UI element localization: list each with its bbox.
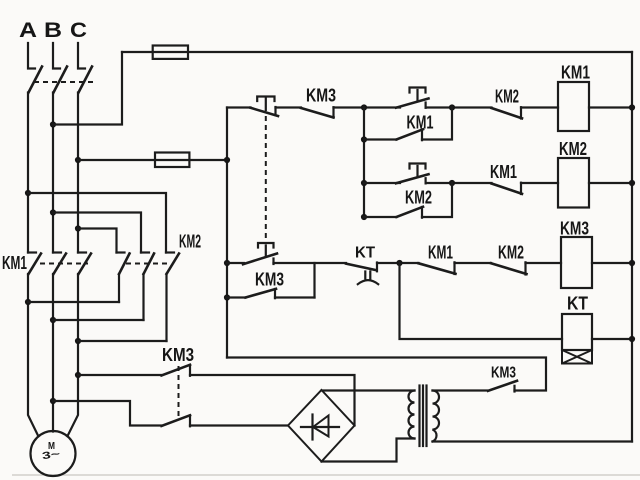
contactor KM2 main pole 2 [141, 251, 149, 253]
relay KT delay symbol [358, 272, 378, 285]
svg-text:KM1: KM1 [428, 243, 453, 263]
wire phase A tap to KM2 pole 3 [28, 193, 166, 253]
pushbutton SB2 start forward blade [396, 99, 429, 108]
junction rung 1 branch left [361, 104, 367, 110]
junction phase A tap to KM2 [25, 190, 31, 196]
rectifier diode cathode bar [311, 415, 313, 440]
junction phase C tap to KM2 [75, 225, 81, 231]
wire coil KM1 to right bus [589, 106, 632, 108]
contactor KM3 brake pole 1 tick [189, 365, 191, 376]
junction rung 3 start [224, 260, 230, 266]
wire branch bus rung 1-2 [363, 108, 365, 218]
svg-text:KM3: KM3 [162, 345, 194, 365]
contactor KM2 interlock NC blade rung 1 [492, 108, 523, 118]
junction brake feed V [50, 398, 56, 404]
svg-text:KT: KT [355, 245, 376, 262]
svg-text:B: B [44, 19, 62, 42]
wire KM3 aux branch right [275, 296, 315, 298]
wire rung 1 from bus to stop button [227, 106, 251, 108]
relay KT timed contact tick [376, 263, 378, 272]
wire tie V between KM1 and KM2 [53, 319, 144, 321]
switch QS linkage dashed [34, 81, 94, 83]
wire phase C vertical [77, 93, 79, 253]
contactor KM3 brake pole 2 blade [162, 415, 191, 426]
junction right bus KT [629, 336, 635, 342]
wire rung 2 button to KM1 NC [426, 182, 492, 184]
junction rung 2 branch right [449, 180, 455, 186]
wire secondary to control return [227, 358, 546, 391]
wire phase A lead-in [28, 43, 35, 69]
wire brake lower from V [53, 401, 161, 426]
transformer T core [418, 386, 420, 447]
svg-text:KM2: KM2 [405, 188, 432, 208]
junction control bus fuse FU2 [224, 157, 230, 163]
contactor KM1 NC tick rung 3 [453, 262, 455, 274]
wire KM1 aux branch left [364, 138, 397, 140]
transformer T primary top lead [322, 389, 415, 391]
relay KT timed contact blade [346, 264, 377, 271]
rectifier diode triangle [313, 416, 329, 437]
junction KT coil branch [396, 260, 402, 266]
wire KM2 pole 3 output [165, 274, 167, 341]
coil KM2 [558, 158, 589, 208]
contactor KM2 aux NO blade [397, 207, 424, 217]
wire brake upper to KM3 contact [78, 374, 161, 376]
wire phase C tap to KM2 pole 1 [78, 229, 117, 253]
wire control line 1 top [122, 51, 632, 53]
contactor KM1 aux NO tick [421, 130, 423, 141]
junction phase B to fuse FU1 [50, 121, 56, 127]
contactor KM1 main pole 2 [53, 251, 61, 253]
contactor KM2 main pole 1 [117, 251, 125, 253]
wire control bus left [226, 108, 228, 358]
wire KM1 aux branch right riser [422, 108, 452, 140]
svg-text:A: A [19, 19, 37, 42]
contactor KM1 interlock NC tick rung 2 [520, 183, 522, 194]
junction KM1 aux branch left [361, 136, 367, 142]
contactor KM2 aux NO tick [421, 207, 423, 218]
svg-text:KM1: KM1 [2, 253, 27, 273]
wire KT coil branch riser [400, 263, 563, 339]
wire phase C lead-in [78, 43, 85, 69]
contactor KM1 main pole 3 [78, 251, 86, 253]
pushbutton SB3 start reverse actuator [410, 164, 426, 177]
wire rung 2 to coil KM2 [521, 182, 558, 184]
wire phase B tap to KM2 pole 2 [53, 213, 141, 253]
svg-text:KT: KT [567, 294, 588, 314]
wire coil KM2 to right bus [589, 182, 632, 184]
wire rung 1 to coil KM1 [521, 106, 558, 108]
junction rung 1 branch right [449, 104, 455, 110]
contactor KM3 aux NO blade rung 3 [246, 289, 277, 298]
contactor KM3 aux contact secondary tick [513, 386, 515, 392]
junction rung 2 start [361, 180, 367, 186]
wire coil KM3 to right bus [592, 262, 632, 264]
junction brake feed W [75, 372, 81, 378]
wire rung 3 KT to KM1 NC [377, 262, 419, 264]
coil KM3 [561, 237, 592, 288]
pushbutton SB1 stop contact 1 blade [251, 108, 279, 116]
junction right bus rung 3 [629, 260, 635, 266]
svg-text:KM3: KM3 [255, 270, 284, 290]
contactor KM3 brake linkage dashed [178, 366, 180, 418]
wire phase A vertical [27, 93, 29, 253]
pushbutton SB1 linkage dashed [265, 116, 267, 241]
wire rung 3 KM1 to KM2 NC [455, 262, 492, 264]
contactor KM1 aux NO blade [397, 129, 424, 139]
contactor KM2 linkage dashed [126, 263, 167, 265]
wire phase B lead-in [53, 43, 60, 69]
switch QS pole C blade [79, 67, 93, 93]
pushbutton SB1 stop contact 2 blade [243, 254, 277, 265]
wire coil KT to right bus [592, 338, 632, 340]
junction tie V [50, 317, 56, 323]
svg-text:KM2: KM2 [179, 232, 201, 252]
pushbutton SB2 start forward actuator [410, 88, 426, 101]
junction tie U [25, 299, 31, 305]
contactor KM1 NC blade rung 3 [419, 263, 456, 274]
contactor KM3 aux NO blade rung 1 [301, 108, 334, 118]
junction phase C to fuse FU2 [75, 157, 81, 163]
wire KM2 aux branch left [364, 216, 397, 218]
contactor KM3 aux NO tick rung 1 [332, 107, 334, 117]
pushbutton SB3 start reverse blade [396, 174, 429, 183]
svg-text:KM1: KM1 [490, 162, 517, 182]
wire KM3 aux branch riser [313, 263, 315, 298]
switch QS pole A blade [29, 67, 43, 93]
junction right bus rung 2 [629, 180, 635, 186]
wire KM2 aux branch right riser [422, 183, 452, 217]
transformer T secondary top lead [433, 389, 488, 391]
transformer T secondary bottom lead [433, 440, 633, 442]
fuse FU2 [155, 153, 189, 168]
transformer T primary bottom lead [322, 439, 415, 462]
contactor KM1 interlock NC blade rung 2 [492, 184, 523, 194]
scan edge artifact bottom [12, 474, 640, 476]
wire rung 3 from bus to stop contact 2 [227, 262, 244, 264]
relay KT delay element box [562, 350, 592, 364]
svg-text:KM2: KM2 [559, 139, 587, 159]
wire KM2 pole 2 output [142, 274, 144, 320]
contactor KM2 NC blade rung 3 [491, 263, 527, 274]
coil KT [562, 314, 592, 350]
wire motor lead U vertical [28, 274, 38, 436]
svg-text:C: C [70, 19, 87, 42]
wire brake lower to rectifier minus [190, 424, 288, 426]
wire KM2 pole 1 output [118, 274, 120, 302]
wire KM3 aux branch left [227, 296, 246, 298]
contactor KM3 brake pole 2 tick [189, 416, 191, 427]
wire to fuse FU1 riser [53, 52, 122, 125]
wire rung 3 stop to KT contact [274, 262, 347, 264]
pushbutton SB2 start forward ticks [425, 103, 427, 108]
junction KM2 aux branch left [361, 214, 367, 220]
junction phase B tap to KM2 [50, 209, 56, 215]
svg-text:KM2: KM2 [495, 87, 519, 107]
pushbutton SB1 stop contact 1 actuator [257, 97, 274, 111]
wire tie U between KM1 and KM2 [28, 301, 119, 303]
contactor KM3 aux contact secondary blade [488, 381, 517, 391]
rectifier bridge VC body [288, 390, 355, 462]
wire rung 2 to start button [364, 182, 400, 184]
motor M 3~ [31, 431, 76, 476]
wire motor lead V vertical [52, 274, 54, 432]
fuse FU1 [153, 46, 188, 59]
svg-text:KM3: KM3 [306, 86, 336, 106]
switch QS pole B blade [54, 67, 68, 93]
coil KM1 [558, 82, 589, 131]
wire brake upper to rectifier plus [190, 375, 355, 426]
wire rung 1 button to KM2 NC [426, 106, 492, 108]
junction KM3 aux branch bus [224, 294, 230, 300]
wire rung 1 KM3 to start button [334, 106, 401, 108]
junction tie W [75, 338, 81, 344]
svg-text:KM3: KM3 [491, 365, 516, 382]
wire phase B vertical [52, 93, 54, 253]
pushbutton SB3 start reverse ticks [425, 178, 427, 183]
junction right bus rung 1 [629, 104, 635, 110]
contactor KM1 main pole 1 [28, 251, 36, 253]
transformer T primary winding [409, 391, 415, 439]
contactor KM2 interlock NC tick rung 1 [520, 107, 522, 118]
transformer T secondary winding [433, 391, 440, 442]
contactor KM3 aux NO tick rung 3 [274, 289, 276, 298]
svg-text:KM2: KM2 [498, 243, 524, 263]
contactor KM2 NC tick rung 3 [524, 262, 526, 274]
wire rung 3 to coil KM3 [526, 262, 562, 264]
contactor KM3 brake pole 1 blade [162, 365, 191, 376]
wire control line 2 [78, 159, 227, 161]
svg-text:KM1: KM1 [561, 63, 590, 83]
wire motor lead W vertical [68, 274, 79, 436]
pushbutton SB1 stop contact 2 tick [272, 259, 274, 265]
pushbutton SB1 stop contact 2 actuator [258, 243, 274, 256]
rectifier diode lead [301, 426, 339, 428]
pushbutton SB1 stop contact 1 tick [274, 107, 276, 115]
wire tie W between KM1 and KM2 [78, 340, 167, 342]
contactor KM1 linkage dashed [40, 263, 88, 265]
wire right supply bus [631, 52, 633, 442]
contactor KM2 main pole 3 [166, 251, 174, 253]
svg-text:KM3: KM3 [560, 219, 589, 239]
wire rung 1 stop to KM3 contact [276, 106, 302, 108]
